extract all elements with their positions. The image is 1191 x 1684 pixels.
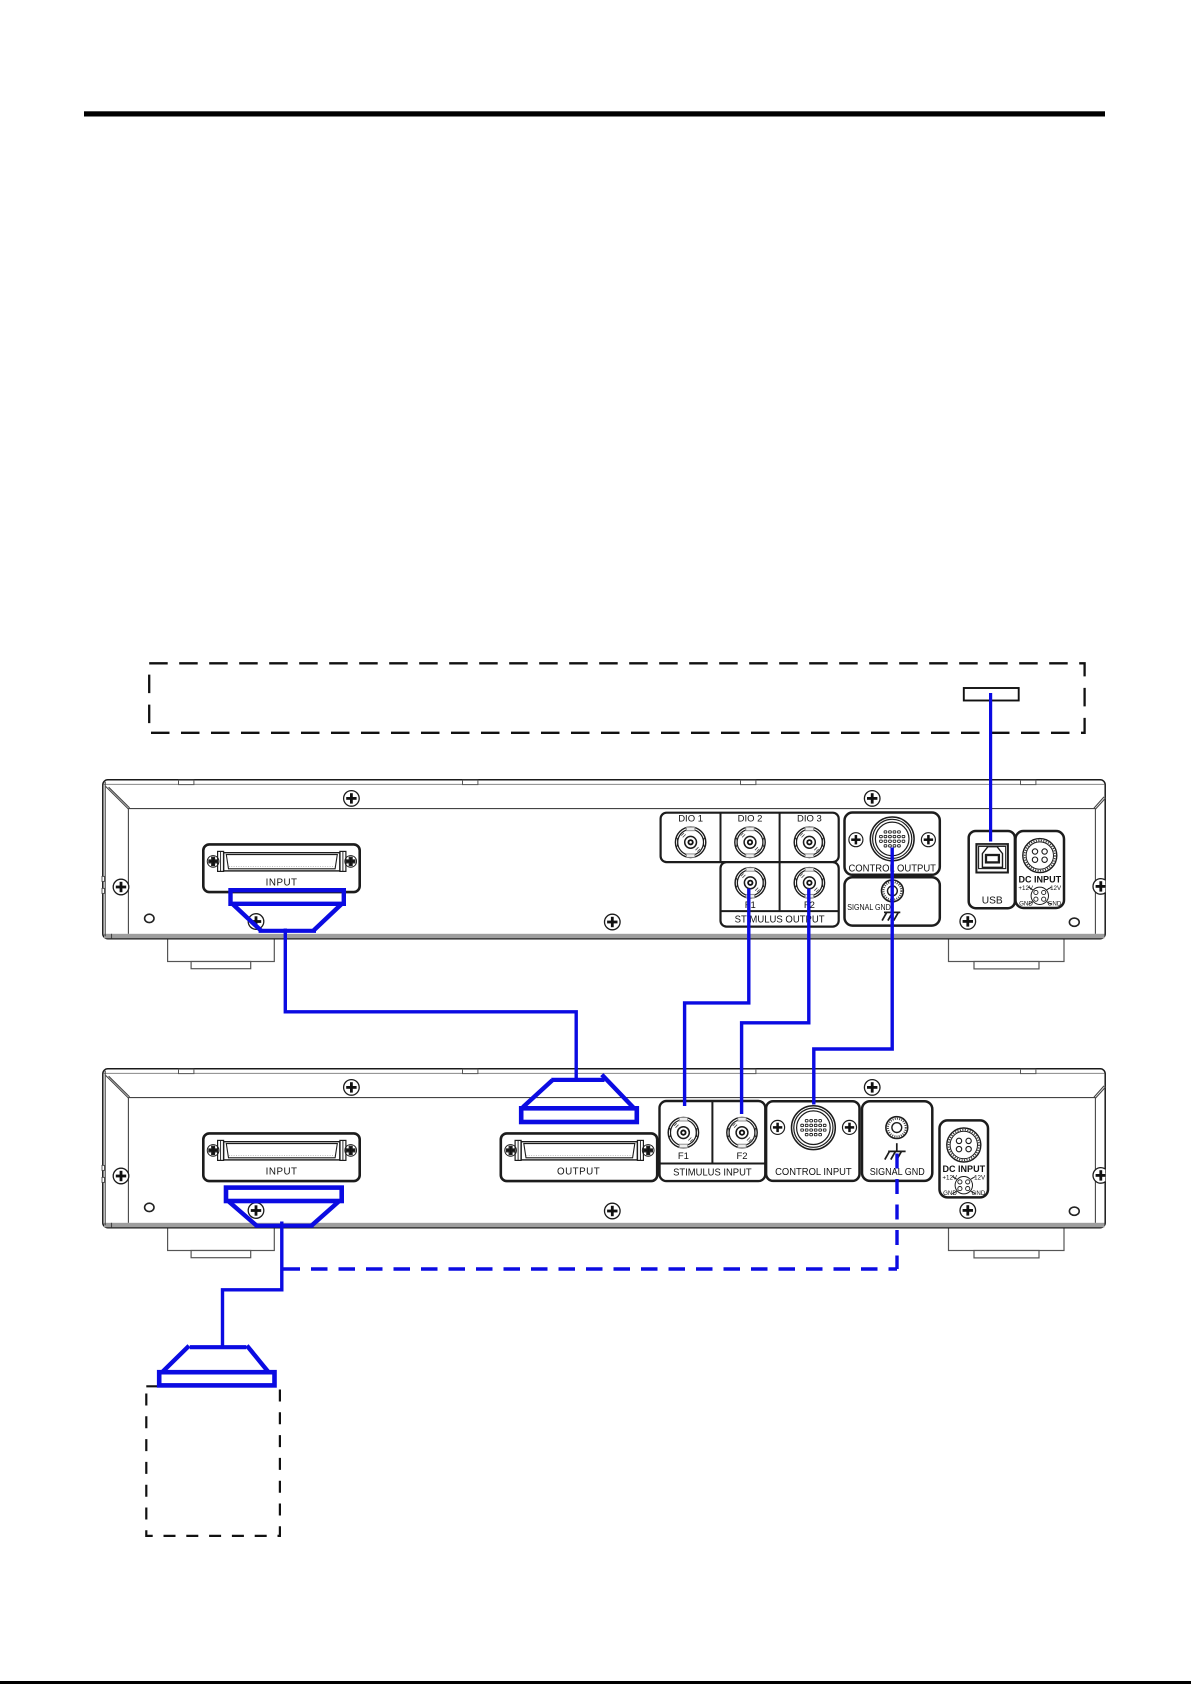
svg-text:STIMULUS INPUT: STIMULUS INPUT [673,1168,752,1179]
svg-text:CONTROL INPUT: CONTROL INPUT [775,1167,852,1178]
svg-text:SIGNAL GND: SIGNAL GND [870,1167,925,1178]
svg-text:OUTPUT: OUTPUT [557,1166,600,1177]
svg-text:DIO 2: DIO 2 [738,814,763,825]
svg-text:F2: F2 [736,1151,747,1162]
svg-text:USB: USB [982,896,1003,907]
svg-text:INPUT: INPUT [266,877,298,888]
svg-text:DIO 3: DIO 3 [797,814,822,825]
svg-text:INPUT: INPUT [266,1166,298,1177]
svg-text:SIGNAL GND: SIGNAL GND [847,902,891,912]
svg-text:DIO 1: DIO 1 [678,814,703,825]
svg-text:F1: F1 [678,1151,689,1162]
